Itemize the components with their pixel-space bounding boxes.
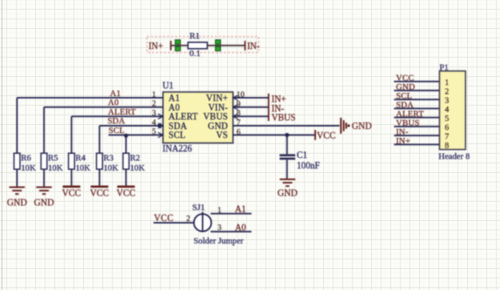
svg-text:0.1: 0.1 bbox=[190, 48, 201, 58]
svg-text:R4: R4 bbox=[76, 153, 87, 163]
svg-text:10K: 10K bbox=[21, 163, 37, 173]
svg-text:R6: R6 bbox=[21, 153, 32, 163]
svg-text:2: 2 bbox=[152, 99, 156, 108]
svg-text:2: 2 bbox=[186, 214, 190, 223]
svg-text:R1: R1 bbox=[190, 30, 200, 40]
svg-text:P1: P1 bbox=[440, 62, 449, 72]
svg-text:1: 1 bbox=[152, 90, 156, 99]
svg-text:Header 8: Header 8 bbox=[439, 151, 470, 161]
svg-text:1: 1 bbox=[218, 205, 222, 214]
svg-text:SJ1: SJ1 bbox=[192, 202, 205, 212]
svg-text:U1: U1 bbox=[163, 81, 174, 91]
svg-text:GND: GND bbox=[7, 198, 27, 208]
svg-text:10K: 10K bbox=[104, 163, 120, 173]
svg-text:VCC: VCC bbox=[90, 188, 109, 198]
svg-text:VCC: VCC bbox=[117, 188, 136, 198]
svg-text:VCC: VCC bbox=[154, 213, 174, 223]
svg-text:10K: 10K bbox=[76, 163, 92, 173]
svg-text:4: 4 bbox=[152, 118, 156, 127]
svg-text:GND: GND bbox=[352, 121, 372, 131]
svg-text:SCL: SCL bbox=[109, 125, 125, 135]
svg-text:10K: 10K bbox=[48, 163, 64, 173]
svg-text:C1: C1 bbox=[297, 150, 308, 160]
svg-text:VS: VS bbox=[216, 130, 228, 140]
svg-text:GND: GND bbox=[278, 188, 298, 198]
svg-text:R5: R5 bbox=[48, 153, 58, 163]
svg-text:VBUS: VBUS bbox=[272, 113, 296, 123]
svg-text:100nF: 100nF bbox=[297, 161, 320, 171]
svg-text:R2: R2 bbox=[130, 153, 140, 163]
svg-text:IN+: IN+ bbox=[149, 41, 164, 51]
svg-text:3: 3 bbox=[218, 223, 222, 232]
svg-text:Solder Jumper: Solder Jumper bbox=[194, 236, 244, 246]
svg-text:8: 8 bbox=[445, 140, 449, 150]
svg-text:IN-: IN- bbox=[247, 41, 260, 51]
svg-text:A1: A1 bbox=[235, 204, 246, 214]
svg-text:3: 3 bbox=[152, 109, 156, 118]
svg-text:VCC: VCC bbox=[317, 130, 336, 140]
svg-text:VCC: VCC bbox=[62, 188, 81, 198]
svg-text:R3: R3 bbox=[104, 153, 114, 163]
svg-text:A0: A0 bbox=[235, 222, 246, 232]
svg-text:IN+: IN+ bbox=[396, 136, 410, 146]
svg-text:10K: 10K bbox=[130, 163, 146, 173]
svg-text:GND: GND bbox=[34, 198, 54, 208]
svg-text:SCL: SCL bbox=[169, 130, 186, 140]
svg-text:INA226: INA226 bbox=[163, 144, 193, 154]
svg-text:5: 5 bbox=[152, 127, 156, 136]
